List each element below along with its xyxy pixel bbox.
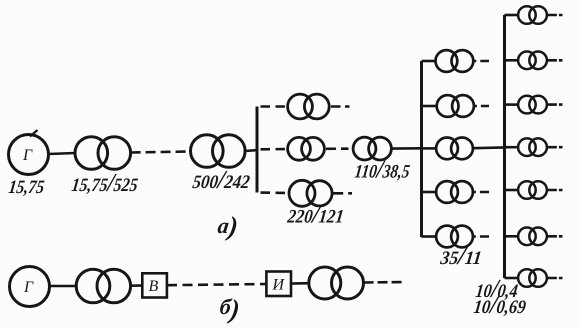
- transformer T1 15,75/525: [75, 137, 131, 170]
- rectifier B (box): [142, 273, 167, 297]
- branch 4 of bus B3: [505, 138, 563, 156]
- wire dashed after T6: [332, 192, 352, 195]
- branch 4 of bus B2: [422, 181, 490, 203]
- wire dash: [547, 146, 563, 149]
- svg-text:500/242: 500/242: [191, 165, 252, 194]
- wire: [505, 14, 520, 17]
- bus B2 (35 kV node): [420, 61, 423, 237]
- svg-text:Г: Г: [23, 279, 34, 296]
- bus B1 (500 kV node): [256, 107, 259, 193]
- wire dash: [547, 103, 563, 106]
- wire: [422, 105, 437, 108]
- wire: [505, 235, 520, 238]
- transformer T15: [518, 138, 536, 156]
- transformer T8: [437, 95, 459, 117]
- wire generator to transformer T19: [50, 285, 77, 288]
- generator G (scheme a): [9, 130, 49, 175]
- svg-text:а): а): [216, 211, 240, 241]
- wire dash: [474, 105, 489, 108]
- wire dash: [473, 191, 489, 194]
- transformer T2 500/242: [191, 135, 246, 168]
- branch 1 of bus B3: [505, 6, 563, 24]
- wire dash: [473, 235, 489, 238]
- branch 2 of bus B3: [505, 52, 563, 70]
- wire inverter to transformer T20: [291, 282, 309, 285]
- wire: [422, 147, 437, 150]
- transformer T3 (top branch): [288, 94, 330, 119]
- svg-text:И: И: [272, 277, 286, 294]
- wire: [422, 191, 437, 194]
- wire: [505, 103, 520, 106]
- wire dashed T4 to T5: [326, 147, 349, 150]
- wire dash: [473, 60, 489, 63]
- transformer T17: [518, 228, 536, 246]
- wire dashed middle branch from bus B1: [261, 148, 288, 151]
- wire dash: [547, 14, 563, 17]
- wire dash: [547, 235, 563, 238]
- wire: [505, 59, 520, 62]
- wire to bus B3: [473, 146, 505, 149]
- transformer T11: [436, 226, 458, 248]
- transformer T6 220/121: [289, 180, 332, 206]
- wire: [505, 146, 520, 149]
- svg-text:15,75: 15,75: [7, 177, 45, 198]
- transformer T14: [518, 96, 536, 114]
- transformer T18: [518, 269, 536, 287]
- transformer T16: [518, 181, 536, 199]
- transformer T12: [518, 6, 536, 24]
- transformer T19: [76, 269, 130, 303]
- wire generator to transformer T1: [49, 153, 76, 154]
- branch 2 of bus B2: [422, 95, 490, 117]
- wire dashed after T20: [364, 281, 404, 284]
- branch 3 of bus B3: [505, 96, 563, 114]
- transformer T10: [436, 181, 458, 203]
- wire dash: [547, 59, 563, 62]
- wire: [422, 235, 437, 238]
- wire: [422, 60, 436, 63]
- transformer T9 35/11: [436, 138, 458, 160]
- svg-text:35/11: 35/11: [438, 241, 483, 270]
- wire T19 to rectifier: [131, 284, 143, 287]
- wire dash: [547, 189, 563, 192]
- wire T2 to bus B1: [245, 150, 258, 151]
- branch 5 of bus B3: [505, 181, 563, 199]
- transformer T5 110/38,5: [353, 137, 391, 160]
- wire dashed top branch from bus B1: [261, 105, 288, 108]
- svg-text:Г: Г: [22, 147, 33, 164]
- wire: [505, 277, 520, 280]
- wire: [505, 189, 520, 192]
- svg-text:В: В: [149, 278, 159, 295]
- branch 5 of bus B2: [422, 226, 490, 248]
- wire dash: [547, 277, 563, 280]
- dashed wire rectifier to inverter: [167, 284, 266, 285]
- wire dashed bottom branch from bus B1: [261, 191, 290, 194]
- generator G (scheme b): [10, 267, 50, 307]
- branch 1 of bus B2: [422, 50, 490, 72]
- svg-text:б): б): [218, 294, 242, 324]
- wire T5 to bus B2: [392, 147, 423, 150]
- branch 6 of bus B3: [505, 228, 563, 246]
- svg-text:15,75/525: 15,75/525: [70, 168, 140, 197]
- transformer T20: [309, 267, 364, 299]
- branch 7 of bus B3: [505, 269, 563, 287]
- inverter I (box): [266, 272, 291, 297]
- bus B3 (10 kV node): [503, 15, 506, 278]
- transformer T4 (middle branch): [288, 137, 325, 160]
- wire dashed after T3: [331, 105, 350, 108]
- transformer T7: [436, 50, 458, 72]
- dashed wire T1 to T2: [131, 152, 191, 153]
- transformer T13: [518, 52, 536, 70]
- branch 3 of bus B2 (through to bus B3): [422, 138, 506, 160]
